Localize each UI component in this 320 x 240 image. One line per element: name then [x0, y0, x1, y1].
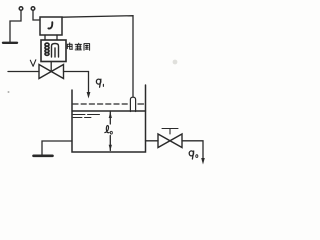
valve handle: [162, 129, 178, 135]
electrode probe: [130, 97, 135, 111]
wire: [50, 62, 52, 72]
tank: [72, 85, 146, 152]
valve V: [39, 65, 64, 79]
label diancifa: [67, 43, 89, 50]
outlet valve: [158, 134, 182, 148]
pipe: [8, 71, 39, 73]
dimension arrow down: [109, 145, 112, 151]
wire: [44, 35, 46, 40]
pipe: [146, 140, 159, 142]
dimension arrow up: [109, 112, 112, 118]
solenoid coil: [45, 43, 49, 55]
water shading: [73, 114, 102, 116]
solenoid plunger: [52, 44, 59, 58]
scan smudge: [173, 60, 178, 65]
scan speck: [8, 91, 10, 93]
dimension line: [109, 111, 111, 124]
liquid surface: [73, 110, 146, 112]
label q0: [189, 151, 198, 159]
dashed segment: [138, 103, 144, 105]
wire to probe: [62, 16, 133, 97]
desired level dashed: [73, 103, 128, 105]
label V: [30, 60, 36, 67]
electrode plate: [3, 42, 17, 44]
pipe: [182, 141, 203, 159]
dimension line: [109, 136, 111, 151]
wire: [33, 11, 40, 21]
relay J: [40, 17, 62, 35]
terminal E1: [19, 7, 23, 11]
wire: [56, 35, 58, 40]
ground wire: [42, 141, 72, 155]
ground plate: [34, 155, 53, 158]
label q1: [96, 79, 103, 87]
water shading: [73, 117, 91, 119]
label l0: [105, 126, 112, 135]
pipe: [88, 72, 90, 94]
solenoid box: [41, 40, 66, 62]
wire: [10, 11, 21, 43]
pipe: [64, 71, 89, 73]
outflow arrowhead: [201, 158, 205, 165]
inflow arrowhead: [87, 92, 91, 99]
terminal E2: [31, 7, 35, 11]
